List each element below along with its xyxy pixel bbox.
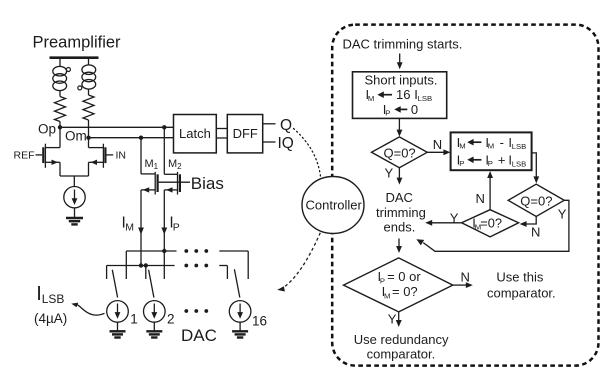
inductor L2 bbox=[82, 65, 96, 89]
svg-text:Y: Y bbox=[388, 312, 397, 327]
ground 16 bbox=[232, 331, 248, 337]
wire bbox=[88, 89, 90, 95]
ground (tail) bbox=[66, 218, 83, 224]
transistor M2 bbox=[164, 127, 180, 279]
svg-text:Use this: Use this bbox=[496, 269, 543, 284]
svg-text:(4µA): (4µA) bbox=[34, 311, 67, 326]
wire IM rail (lower) bbox=[107, 265, 175, 267]
ILSB pointer squiggle arrow bbox=[74, 304, 105, 315]
DFF box bbox=[227, 115, 262, 153]
big diamond Y arrow bbox=[398, 312, 400, 323]
inductor L1 bbox=[53, 66, 67, 90]
dashed curve controller to DAC bbox=[282, 233, 321, 289]
node M1 drain on Om line bbox=[139, 136, 143, 140]
svg-text:Latch: Latch bbox=[179, 126, 211, 141]
resistor R2 bbox=[83, 95, 94, 120]
transistor IN (input pair right) bbox=[89, 138, 114, 176]
wires Latch-DFF bbox=[216, 128, 227, 130]
svg-text:comparator.: comparator. bbox=[487, 285, 556, 300]
return path D2 Y to ends bbox=[423, 200, 569, 251]
wire Op line bbox=[60, 126, 174, 128]
svg-text:Y: Y bbox=[558, 206, 567, 221]
wire D2 bottom to D3 bbox=[524, 217, 536, 225]
wire right leg top bbox=[88, 59, 90, 65]
svg-text:Controller: Controller bbox=[306, 198, 363, 213]
svg-text:Use redundancy: Use redundancy bbox=[354, 332, 449, 347]
svg-text:DAC trimming starts.: DAC trimming starts. bbox=[343, 37, 463, 52]
diamond Q=0? (1) bbox=[372, 137, 428, 168]
stub branch16 IM bbox=[226, 266, 228, 280]
big diamond N arrow bbox=[453, 284, 469, 286]
svg-text:DFF: DFF bbox=[233, 126, 258, 141]
arrow ends down to big diamond bbox=[398, 239, 400, 249]
wire to Op bbox=[59, 122, 61, 128]
svg-text:Q=0?: Q=0? bbox=[384, 146, 416, 161]
dashed rounded border bbox=[332, 25, 598, 366]
dotted curve Q to controller bbox=[294, 129, 321, 177]
svg-text:DAC: DAC bbox=[386, 190, 413, 205]
wire IP rail (upper) bbox=[126, 250, 176, 252]
controller circle bbox=[302, 177, 364, 234]
big diamond IP=0 or IM=0 bbox=[344, 258, 453, 312]
svg-text:Short inputs.: Short inputs. bbox=[365, 73, 438, 88]
svg-text:Bias: Bias bbox=[191, 174, 224, 193]
svg-text:Y: Y bbox=[450, 211, 459, 226]
current IM arrow bbox=[138, 228, 144, 235]
current IP arrow bbox=[161, 228, 167, 235]
svg-text:REF: REF bbox=[14, 149, 35, 161]
stub branch2 IM bbox=[145, 266, 147, 280]
arrow D1 to box2 bbox=[427, 151, 446, 153]
svg-text:Op: Op bbox=[38, 122, 56, 137]
svg-text:IQ: IQ bbox=[278, 135, 294, 152]
ground 1 bbox=[110, 331, 126, 337]
diamond IM=0? bbox=[462, 210, 519, 237]
wire Om line bbox=[89, 137, 174, 139]
wire IQ out bbox=[263, 141, 276, 143]
diamond Q=0? (2) bbox=[508, 184, 564, 216]
polarity dot L1 bbox=[66, 68, 70, 72]
svg-text:IM: IM bbox=[122, 215, 134, 234]
supply bar bbox=[50, 56, 99, 59]
polarity dot L2 bbox=[78, 86, 82, 90]
current source 16 bbox=[229, 301, 251, 323]
wire Q out bbox=[263, 123, 276, 125]
svg-text:IP: IP bbox=[169, 215, 179, 234]
node M2 drain on Op line bbox=[162, 125, 166, 129]
ellipsis dots rails bbox=[184, 249, 208, 313]
svg-text:DAC: DAC bbox=[181, 326, 217, 345]
switch lever 16 bbox=[234, 269, 239, 297]
wire bbox=[59, 91, 61, 97]
svg-text:Om: Om bbox=[65, 128, 87, 143]
current source 1 bbox=[107, 301, 129, 323]
transistor M1 bbox=[141, 138, 158, 266]
wire common source rail bbox=[60, 175, 89, 177]
svg-text:M1: M1 bbox=[145, 158, 159, 171]
svg-text:ends.: ends. bbox=[384, 220, 416, 235]
switch lever 1 bbox=[112, 270, 117, 298]
flow box IM IP update bbox=[451, 132, 532, 170]
svg-text:2: 2 bbox=[167, 312, 175, 327]
flow box Short inputs bbox=[353, 72, 447, 119]
svg-text:ILSB: ILSB bbox=[36, 283, 64, 306]
svg-text:Q: Q bbox=[280, 117, 292, 134]
arrow D1 down bbox=[398, 168, 400, 180]
ground 2 bbox=[146, 331, 162, 337]
stub branch1 IP bbox=[125, 251, 127, 279]
svg-text:IN: IN bbox=[116, 149, 127, 161]
svg-text:1: 1 bbox=[130, 312, 138, 327]
wire Bias gate line bbox=[159, 181, 190, 183]
svg-text:comparator.: comparator. bbox=[367, 346, 436, 361]
node Op bbox=[58, 125, 62, 129]
svg-text:N: N bbox=[461, 270, 470, 285]
current source 2 bbox=[144, 301, 166, 323]
svg-text:Preamplifier: Preamplifier bbox=[33, 34, 122, 52]
svg-text:N: N bbox=[476, 191, 485, 206]
resistor R1 bbox=[55, 97, 66, 122]
wire box2 right to D2 bbox=[532, 153, 537, 179]
node Om bbox=[86, 136, 90, 140]
svg-text:trimming: trimming bbox=[376, 205, 426, 220]
svg-text:16: 16 bbox=[252, 314, 267, 329]
flow arrow 1 bbox=[399, 54, 401, 65]
flow arrow 2 bbox=[398, 118, 400, 132]
stub branch16 IP bbox=[247, 251, 249, 279]
wire to Om bbox=[88, 120, 90, 138]
svg-text:N: N bbox=[433, 137, 442, 152]
arrow D3 up to box2 (N) bbox=[489, 176, 491, 210]
wire left leg top bbox=[59, 59, 61, 67]
Latch box bbox=[174, 115, 217, 153]
svg-text:Y: Y bbox=[385, 165, 394, 180]
switch lever 2 bbox=[149, 270, 154, 298]
current source tail bbox=[64, 187, 85, 208]
svg-text:N: N bbox=[531, 224, 540, 239]
transistor REF (input pair left) bbox=[36, 127, 61, 176]
arrow D3 left (Y) bbox=[430, 222, 462, 224]
stub branch1 IM bbox=[106, 266, 108, 280]
svg-text:M2: M2 bbox=[168, 158, 182, 171]
svg-text:Q=0?: Q=0? bbox=[520, 194, 552, 209]
